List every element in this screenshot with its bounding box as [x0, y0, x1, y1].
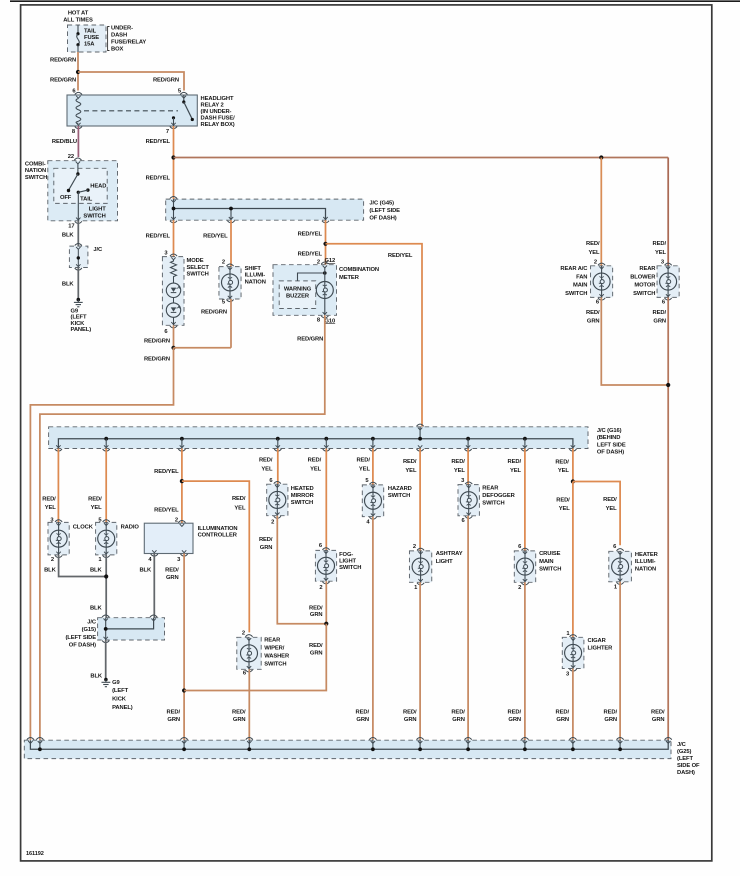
svg-text:RED/GRN: RED/GRN — [144, 338, 170, 344]
light switch blade and contacts — [77, 164, 79, 175]
svg-text:DASH: DASH — [111, 33, 127, 39]
node feed junction to rear A/C fan switch — [599, 155, 603, 159]
svg-text:7: 7 — [166, 129, 169, 135]
junction connector strip J/C G16 — [49, 427, 588, 449]
svg-text:BOX: BOX — [111, 47, 123, 53]
svg-text:OF DASH): OF DASH) — [597, 450, 624, 456]
wire RED/YEL G16 to rear defogger switch — [467, 449, 469, 485]
wire RED/GRN branch to relay pin 5 — [78, 72, 184, 91]
svg-text:2: 2 — [222, 260, 225, 266]
svg-text:RED/: RED/ — [653, 241, 667, 247]
svg-text:HEATED: HEATED — [291, 486, 314, 492]
svg-text:J/C (G16): J/C (G16) — [597, 428, 622, 434]
svg-text:RED/: RED/ — [508, 459, 522, 465]
junction connector J/C G15 — [98, 618, 165, 640]
svg-text:RED/GRN: RED/GRN — [153, 78, 179, 84]
svg-text:PANEL): PANEL) — [71, 327, 92, 333]
relay coil — [76, 99, 81, 124]
wire RED/YEL long feed to rear switches — [174, 157, 669, 159]
svg-text:RED/: RED/ — [603, 497, 617, 503]
svg-text:HAZARD: HAZARD — [388, 486, 412, 492]
svg-text:(LEFT: (LEFT — [112, 688, 128, 694]
wire RED/GRN meter trunk B wrap to G25 — [40, 315, 325, 740]
wire RED/GRN hazard to G25 — [372, 517, 374, 741]
wire BLK radio to J/C G15 — [105, 555, 107, 618]
svg-text:GRN: GRN — [653, 319, 666, 325]
G45 bus — [174, 209, 326, 221]
wire RED/GRN fog light down — [325, 581, 327, 624]
svg-text:RED/YEL: RED/YEL — [146, 234, 171, 240]
svg-text:RED/: RED/ — [653, 310, 667, 316]
wire RED/YEL branch to rear wiper/washer switch — [182, 481, 249, 632]
svg-text:RED/YEL: RED/YEL — [203, 234, 228, 240]
G16 bus — [58, 439, 573, 449]
svg-text:YEL: YEL — [405, 468, 417, 474]
wire RED/GRN rear A/C fan to junction — [601, 297, 668, 385]
node junction below fuse — [76, 70, 80, 74]
wire RED/YEL G45 to combination meter — [325, 220, 327, 265]
svg-text:SWITCH: SWITCH — [539, 566, 561, 572]
svg-text:(LEFT SIDE: (LEFT SIDE — [369, 208, 400, 214]
svg-text:FAN: FAN — [576, 274, 587, 280]
svg-text:RED/: RED/ — [451, 709, 465, 715]
wire RED/GRN mode select switch down — [173, 325, 175, 348]
svg-text:ILLUMI-: ILLUMI- — [245, 273, 266, 279]
svg-text:GRN: GRN — [167, 717, 180, 723]
svg-text:RED/GRN: RED/GRN — [297, 336, 323, 342]
svg-text:RED/BLU: RED/BLU — [52, 139, 77, 145]
wire RED/GRN shift illumination down — [230, 299, 232, 348]
wire RED/YEL G45 to mode select switch — [173, 220, 175, 256]
svg-text:YEL: YEL — [559, 506, 571, 512]
svg-text:BLK: BLK — [90, 568, 103, 574]
node rear switches RED/GRN junction — [666, 383, 670, 387]
svg-text:RED/: RED/ — [232, 709, 246, 715]
node mode/shift RED/GRN junction — [171, 346, 175, 350]
rear wiper/washer switch bulb — [237, 637, 261, 669]
svg-text:FOG-: FOG- — [339, 552, 353, 558]
wire RED/GRN rear blower down to G25 — [667, 297, 669, 740]
node meter branch junction — [323, 242, 327, 246]
svg-text:BUZZER: BUZZER — [286, 294, 310, 300]
svg-text:BLOWER: BLOWER — [630, 274, 656, 280]
svg-text:MAIN: MAIN — [539, 559, 553, 565]
svg-text:BLK: BLK — [62, 282, 75, 288]
svg-text:YEL: YEL — [655, 250, 667, 256]
svg-text:RED/: RED/ — [308, 458, 322, 464]
svg-text:RED/: RED/ — [604, 709, 618, 715]
svg-text:TAIL: TAIL — [80, 196, 93, 202]
svg-text:RED/: RED/ — [356, 709, 370, 715]
svg-text:2: 2 — [319, 585, 322, 591]
svg-text:OF DASH): OF DASH) — [369, 215, 396, 221]
svg-text:HEAD: HEAD — [90, 183, 106, 189]
svg-text:YEL: YEL — [261, 466, 273, 472]
svg-text:GRN: GRN — [508, 717, 521, 723]
svg-text:RED/: RED/ — [556, 498, 570, 504]
headlight relay 2 box — [67, 95, 197, 126]
svg-text:DEFOGGER: DEFOGGER — [482, 493, 515, 499]
svg-text:MAIN: MAIN — [573, 283, 587, 289]
svg-text:ALL TIMES: ALL TIMES — [63, 18, 93, 24]
wire RED/YEL branch to heater illumination — [573, 482, 620, 546]
hazard switch bulb — [362, 485, 383, 517]
rear blower motor switch bulb — [657, 266, 679, 298]
svg-text:SWITCH: SWITCH — [565, 291, 587, 297]
svg-text:REAR: REAR — [482, 486, 499, 492]
svg-text:OFF: OFF — [60, 195, 72, 201]
svg-text:CONTROLLER: CONTROLLER — [198, 532, 238, 538]
svg-text:GRN: GRN — [556, 717, 569, 723]
svg-text:(IN UNDER-: (IN UNDER- — [201, 109, 232, 115]
svg-text:G9: G9 — [71, 309, 79, 315]
svg-text:UNDER-: UNDER- — [111, 26, 133, 32]
warning buzzer box — [279, 281, 316, 309]
wire RED/YEL G16 to clock — [57, 449, 59, 523]
svg-text:YEL: YEL — [91, 505, 103, 511]
relay switch contacts — [183, 95, 185, 102]
svg-text:HOT AT: HOT AT — [68, 11, 89, 17]
node G45 taps — [172, 207, 176, 211]
svg-text:2: 2 — [51, 557, 54, 563]
svg-text:GRN: GRN — [604, 717, 617, 723]
wire RED/GRN wiper/washer to G25 — [248, 669, 250, 740]
svg-text:2: 2 — [413, 544, 416, 550]
G25 bus — [30, 740, 668, 749]
wire RED/GRN cruise to G25 — [524, 582, 526, 740]
svg-text:SHIFT: SHIFT — [245, 266, 262, 272]
svg-text:(LEFT: (LEFT — [71, 315, 87, 321]
svg-text:TAIL: TAIL — [84, 29, 97, 35]
svg-text:YEL: YEL — [45, 505, 57, 511]
svg-text:RED/YEL: RED/YEL — [146, 176, 171, 182]
resistor in mode select switch — [171, 260, 177, 279]
svg-text:RED/: RED/ — [167, 709, 181, 715]
wire RED/BLU relay pin 8 to combination switch — [77, 126, 79, 157]
svg-text:BLK: BLK — [139, 568, 152, 574]
junction connector strip J/C G25 — [24, 740, 671, 758]
under-dash fuse/relay box (TAIL FUSE 15A) — [68, 25, 107, 52]
wire RED/GRN trunk A wrap to G25 — [30, 348, 173, 740]
wire BLK clock to radio ground join — [59, 555, 107, 577]
svg-text:ILLUMI-: ILLUMI- — [635, 559, 656, 565]
svg-text:GRN: GRN — [233, 717, 246, 723]
svg-text:YEL: YEL — [510, 468, 522, 474]
radio illumination bulb — [96, 522, 117, 555]
svg-text:LIGHTER: LIGHTER — [588, 645, 614, 651]
svg-text:RED/GRN: RED/GRN — [50, 78, 76, 84]
fuse TAIL FUSE 15A — [77, 25, 79, 33]
wire RED/GRN heated mirror to fog light junction — [277, 516, 326, 624]
wire RED/YEL G16 to radio — [105, 449, 107, 523]
svg-text:REAR: REAR — [264, 637, 281, 643]
wire RED/YEL to cigar lighter — [572, 482, 574, 638]
svg-text:(LEFT SIDE: (LEFT SIDE — [65, 635, 96, 641]
svg-text:COMBI-: COMBI- — [25, 161, 46, 167]
svg-text:YEL: YEL — [454, 468, 466, 474]
svg-text:15A: 15A — [84, 42, 95, 48]
LED 1 in mode select switch — [173, 278, 175, 283]
svg-text:SELECT: SELECT — [187, 265, 210, 271]
svg-text:RED/: RED/ — [451, 459, 465, 465]
junction connector J/C (combination switch ground) — [69, 246, 88, 267]
svg-text:CLOCK: CLOCK — [73, 524, 94, 530]
svg-text:GRN: GRN — [587, 319, 600, 325]
wire RED/YEL G45 to shift illumination — [230, 220, 232, 266]
svg-text:2: 2 — [594, 260, 597, 266]
svg-text:BLK: BLK — [90, 673, 103, 679]
G25 entry pins — [27, 738, 34, 740]
svg-text:J/C: J/C — [93, 247, 103, 253]
svg-text:161192: 161192 — [26, 851, 44, 857]
svg-text:COMBINATION: COMBINATION — [339, 267, 379, 273]
heated mirror switch bulb — [267, 484, 288, 516]
wire RED/GRN heater illumination to G25 — [619, 582, 621, 740]
cruise main switch bulb — [514, 551, 535, 582]
fog light switch bulb — [315, 550, 336, 581]
node clock/radio BLK junction — [104, 574, 108, 578]
svg-text:NATION: NATION — [635, 567, 656, 573]
svg-text:RED/: RED/ — [259, 537, 273, 543]
wire RED/YEL G16 to hazard switch — [372, 449, 374, 485]
svg-text:YEL: YEL — [234, 506, 246, 512]
page frame — [10, 0, 740, 2]
svg-text:METER: METER — [339, 275, 360, 281]
svg-text:RED/: RED/ — [508, 709, 522, 715]
clock illumination bulb — [48, 522, 69, 555]
svg-text:GRN: GRN — [404, 717, 417, 723]
svg-text:SWITCH: SWITCH — [25, 175, 47, 181]
svg-text:LIGHT: LIGHT — [436, 559, 453, 565]
wire RED/GRN controller to G25 — [183, 554, 185, 741]
G16 bus taps — [104, 437, 108, 441]
svg-text:GRN: GRN — [652, 717, 665, 723]
svg-text:WIPER/: WIPER/ — [264, 645, 285, 651]
rear defogger switch bulb — [458, 485, 479, 516]
svg-text:GRN: GRN — [356, 717, 369, 723]
svg-text:RED/: RED/ — [259, 458, 273, 464]
svg-text:RED/YEL: RED/YEL — [154, 469, 179, 475]
svg-text:J/C (G45): J/C (G45) — [369, 201, 394, 207]
svg-text:SWITCH: SWITCH — [264, 661, 286, 667]
svg-text:RED/YEL: RED/YEL — [154, 507, 179, 513]
svg-text:SWITCH: SWITCH — [291, 500, 313, 506]
wire RED/YEL G16 to illumination controller — [181, 449, 183, 524]
svg-text:NATION: NATION — [245, 279, 266, 285]
wire RED/YEL G16 to heated mirror switch — [277, 449, 279, 485]
svg-text:RED/: RED/ — [556, 709, 570, 715]
svg-text:ASHTRAY: ASHTRAY — [436, 551, 463, 557]
ashtray light bulb — [409, 551, 431, 582]
svg-text:SWITCH: SWITCH — [633, 291, 655, 297]
svg-text:G9: G9 — [112, 680, 120, 686]
svg-text:GRN: GRN — [310, 651, 323, 657]
wire RED/YEL G16 to ashtray light — [419, 449, 421, 551]
svg-text:RED/: RED/ — [309, 606, 323, 612]
mode select switch box — [162, 257, 184, 326]
svg-text:MOTOR: MOTOR — [634, 283, 656, 289]
svg-text:SWITCH: SWITCH — [83, 213, 105, 219]
rear A/C fan main switch bulb — [591, 266, 613, 298]
wire RED/GRN ashtray to G25 — [419, 582, 421, 740]
wire RED/GRN defogger to G25 — [467, 516, 469, 740]
svg-text:KICK: KICK — [112, 697, 127, 703]
wire BLK G15 to ground G9 — [105, 640, 107, 679]
wire RED/YEL G16 to cruise main switch — [524, 449, 526, 551]
svg-text:DASH FUSE/: DASH FUSE/ — [201, 116, 236, 122]
wire BLK J/C to G9 — [77, 268, 79, 300]
node RED/YEL branch junction — [171, 155, 175, 159]
wire RED/YEL branch to J/C G16 — [326, 244, 423, 427]
svg-text:RADIO: RADIO — [121, 524, 140, 530]
ground G9 (left kick panel) — [77, 298, 81, 302]
svg-text:RED/: RED/ — [651, 709, 665, 715]
svg-text:RED/YEL: RED/YEL — [388, 253, 413, 259]
svg-text:G10: G10 — [325, 318, 336, 324]
svg-text:(LEFT: (LEFT — [677, 756, 693, 762]
svg-text:(G25): (G25) — [677, 749, 691, 755]
wire RED/GRN fuse to relay pin 6 — [77, 52, 79, 91]
svg-text:2: 2 — [242, 631, 245, 637]
svg-text:SWITCH: SWITCH — [482, 500, 504, 506]
svg-text:RED/YEL: RED/YEL — [298, 231, 323, 237]
svg-text:OF DASH): OF DASH) — [69, 643, 96, 649]
svg-text:G12: G12 — [325, 258, 336, 264]
svg-text:RED/GRN: RED/GRN — [201, 310, 227, 316]
svg-text:BLK: BLK — [62, 233, 75, 239]
bracket + label UNDER-DASH FUSE/RELAY BOX — [108, 27, 110, 51]
svg-text:J/C: J/C — [677, 742, 687, 748]
svg-text:RED/: RED/ — [586, 310, 600, 316]
svg-text:YEL: YEL — [558, 468, 570, 474]
wire warning buzzer to meter bulb node — [298, 273, 325, 281]
heater illumination bulb — [609, 551, 632, 582]
svg-text:WASHER: WASHER — [264, 653, 290, 659]
light switch inner box — [54, 168, 107, 203]
wire RED/YEL to rear blower motor switch — [667, 158, 669, 266]
svg-text:DASH): DASH) — [677, 770, 695, 776]
G15 bus — [106, 618, 154, 629]
svg-text:RED/: RED/ — [165, 568, 179, 574]
wire RED/GRN fog/mirror trunk to controller junction — [184, 624, 326, 691]
wire RED/YEL to rear A/C fan main switch — [600, 158, 602, 266]
wire RED/GRN cigar lighter to G25 — [572, 669, 574, 741]
svg-text:WARNING: WARNING — [284, 287, 312, 293]
svg-text:BLK: BLK — [44, 568, 57, 574]
svg-text:SWITCH: SWITCH — [388, 493, 410, 499]
meter illumination bulb — [324, 268, 326, 282]
svg-text:2: 2 — [271, 519, 274, 525]
svg-text:RED/: RED/ — [403, 459, 417, 465]
svg-text:SIDE OF: SIDE OF — [677, 763, 700, 769]
svg-text:RELAY BOX): RELAY BOX) — [201, 122, 235, 128]
wire RED/YEL relay pin 7 down — [173, 126, 175, 199]
wire BLK controller to J/C G15 — [153, 554, 155, 618]
svg-text:RED/YEL: RED/YEL — [146, 139, 171, 145]
svg-text:NATION: NATION — [25, 168, 46, 174]
wire RED/YEL G16 to fog light switch — [325, 449, 327, 551]
svg-text:RED/: RED/ — [232, 496, 246, 502]
svg-text:GRN: GRN — [452, 717, 465, 723]
svg-text:RED/GRN: RED/GRN — [144, 356, 170, 362]
combination meter box — [273, 265, 337, 316]
svg-text:J/C: J/C — [87, 619, 97, 625]
node cigar/heater junction — [571, 479, 575, 483]
LED 2 in mode select switch — [173, 298, 175, 303]
svg-text:RED/: RED/ — [42, 496, 56, 502]
svg-text:YEL: YEL — [359, 466, 371, 472]
svg-text:CRUISE: CRUISE — [539, 551, 561, 557]
svg-text:(G15): (G15) — [82, 627, 96, 633]
wire BLK combination switch to J/C — [77, 221, 79, 246]
node controller RED/GRN junction — [182, 688, 186, 692]
illumination controller box — [144, 523, 193, 553]
svg-text:2: 2 — [518, 585, 521, 591]
svg-text:RED/YEL: RED/YEL — [298, 251, 323, 257]
svg-text:SWITCH: SWITCH — [339, 565, 361, 571]
svg-text:REAR: REAR — [639, 266, 656, 272]
svg-text:MODE: MODE — [187, 258, 204, 264]
wire tail contact to pin 17 — [77, 192, 79, 221]
svg-text:RED/: RED/ — [356, 458, 370, 464]
shift illumination bulb — [219, 267, 241, 299]
svg-text:RED/: RED/ — [88, 496, 102, 502]
relay internal dashed link — [84, 110, 178, 112]
svg-text:HEADLIGHT: HEADLIGHT — [201, 96, 234, 102]
svg-text:YEL: YEL — [589, 250, 601, 256]
svg-text:RED/: RED/ — [403, 709, 417, 715]
svg-text:BLK: BLK — [90, 606, 103, 612]
svg-text:RED/: RED/ — [586, 241, 600, 247]
node fog/mirror RED/GRN junction — [324, 622, 328, 626]
svg-text:GRN: GRN — [310, 612, 323, 618]
svg-text:22: 22 — [68, 154, 74, 160]
svg-text:RELAY 2: RELAY 2 — [201, 103, 224, 109]
svg-text:17: 17 — [68, 224, 74, 230]
node controller branch junction — [180, 479, 184, 483]
svg-text:GRN: GRN — [260, 545, 273, 551]
svg-text:KICK: KICK — [71, 321, 86, 327]
svg-text:ILLUMINATION: ILLUMINATION — [198, 526, 238, 532]
svg-text:RED/: RED/ — [555, 460, 569, 466]
svg-text:LIGHT: LIGHT — [339, 559, 356, 565]
wire RED/YEL G16 to cigar/heater trunk — [572, 449, 574, 482]
junction connector strip J/C G45 — [166, 199, 364, 220]
svg-text:FUSE: FUSE — [84, 35, 99, 41]
svg-text:RED/GRN: RED/GRN — [50, 58, 76, 64]
svg-text:LIGHT: LIGHT — [89, 207, 106, 213]
svg-text:RED/: RED/ — [309, 643, 323, 649]
svg-text:GRN: GRN — [166, 575, 179, 581]
svg-text:SWITCH: SWITCH — [187, 272, 209, 278]
svg-text:(BEHIND: (BEHIND — [597, 435, 620, 441]
svg-text:YEL: YEL — [606, 506, 618, 512]
svg-text:HEATER: HEATER — [635, 552, 659, 558]
svg-text:CIGAR: CIGAR — [588, 638, 607, 644]
cigar lighter bulb — [562, 637, 584, 668]
svg-text:MIRROR: MIRROR — [291, 493, 315, 499]
ground G9 (left kick panel) lower — [104, 678, 108, 682]
svg-text:PANEL): PANEL) — [112, 705, 133, 711]
svg-text:FUSE/RELAY: FUSE/RELAY — [111, 40, 146, 46]
svg-text:LEFT SIDE: LEFT SIDE — [597, 442, 626, 448]
svg-text:YEL: YEL — [310, 466, 322, 472]
svg-text:REAR A/C: REAR A/C — [560, 266, 588, 272]
